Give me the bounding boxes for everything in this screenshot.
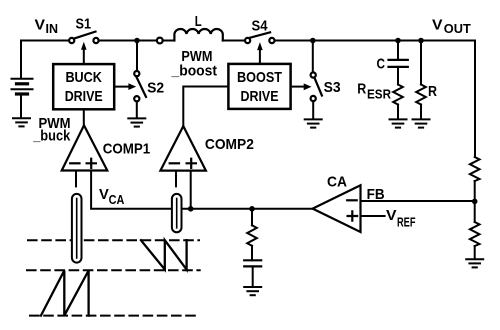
label FB bbox=[367, 186, 385, 203]
svg-text:_buck: _buck bbox=[32, 128, 70, 145]
svg-text:R: R bbox=[428, 83, 437, 100]
waveform falling sawtooth bbox=[141, 240, 187, 269]
wire R branch down bbox=[420, 41, 422, 85]
svg-text:L: L bbox=[195, 13, 202, 30]
svg-text:DRIVE: DRIVE bbox=[241, 88, 279, 105]
svg-text:IN: IN bbox=[46, 22, 59, 36]
svg-text:V: V bbox=[99, 186, 109, 203]
svg-text:_boost: _boost bbox=[171, 62, 217, 79]
wire S3 branch down bbox=[312, 41, 314, 73]
arrowhead at S2 bbox=[128, 83, 136, 90]
op-amp CA bbox=[313, 185, 361, 232]
wire divider to ground bbox=[474, 246, 476, 258]
svg-text:ESR: ESR bbox=[367, 87, 391, 101]
resistor RESR label bbox=[357, 81, 391, 102]
wire rail S1 to L circle bbox=[99, 40, 157, 42]
resistor Rtop of divider bbox=[470, 157, 480, 181]
switch S1 bbox=[69, 32, 99, 44]
capacitor Ccomp bbox=[244, 260, 261, 266]
wire top rail left from VIN corner to S1 bbox=[21, 40, 69, 42]
wire BOOST top to arrow bbox=[259, 50, 261, 64]
node VOUT label bbox=[432, 17, 471, 37]
inductor L label bbox=[195, 13, 202, 30]
capacitor C bbox=[389, 60, 408, 67]
svg-text:S2: S2 bbox=[147, 80, 164, 97]
svg-text:CA: CA bbox=[109, 193, 125, 207]
resistor R bbox=[416, 85, 426, 105]
battery B1 bbox=[12, 79, 33, 118]
svg-text:V: V bbox=[386, 207, 397, 224]
label COMP2 bbox=[205, 136, 254, 153]
resistor R label bbox=[428, 83, 437, 100]
svg-text:REF: REF bbox=[397, 215, 416, 229]
ground under R bbox=[413, 119, 430, 127]
svg-text:S4: S4 bbox=[252, 18, 269, 35]
junction dot R branch bbox=[418, 38, 424, 44]
dashed level line top bbox=[28, 239, 199, 241]
wire S2 to ground bbox=[136, 102, 138, 118]
dashed level line bottom bbox=[30, 315, 197, 317]
svg-text:COMP1: COMP1 bbox=[103, 140, 151, 157]
junction dot C branch bbox=[395, 38, 401, 44]
switch S4 label bbox=[252, 18, 269, 35]
label PWM_buck bbox=[32, 115, 70, 144]
wire circle to L bbox=[163, 40, 175, 42]
svg-text:COMP2: COMP2 bbox=[205, 136, 254, 153]
svg-text:BOOST: BOOST bbox=[237, 69, 282, 86]
junction dot S2 branch bbox=[134, 38, 140, 44]
switch S3 bbox=[311, 72, 322, 101]
junction dot COMP2 plus on VCA bbox=[188, 206, 194, 212]
wire S3 to ground bbox=[312, 101, 314, 118]
switch S1 label bbox=[76, 16, 92, 33]
wire C branch down bbox=[397, 41, 399, 60]
wire BUCK right arrow line to S2 bbox=[114, 86, 129, 88]
wire C to RESR bbox=[397, 67, 399, 85]
svg-text:CA: CA bbox=[327, 174, 347, 191]
node VIN label bbox=[35, 17, 59, 37]
svg-text:C: C bbox=[377, 56, 386, 73]
wire COMP2 output riser to BOOST bbox=[183, 87, 228, 127]
svg-text:DRIVE: DRIVE bbox=[65, 88, 103, 105]
junction dot S3 branch bbox=[310, 38, 316, 44]
wire BOOST right arrow line to S3 bbox=[291, 86, 303, 88]
wire BUCK top to arrow bbox=[83, 50, 85, 65]
wire RESR to ground bbox=[397, 105, 399, 119]
arrow up at S1 bbox=[81, 42, 87, 50]
switch S2 bbox=[134, 71, 146, 101]
label CA bbox=[327, 174, 347, 191]
box U1 BUCK DRIVE bbox=[53, 64, 114, 109]
op-amp COMP2 bbox=[160, 126, 206, 171]
arrowhead at S3 bbox=[304, 83, 312, 90]
svg-text:V: V bbox=[35, 17, 46, 34]
resistor Rbot of divider bbox=[470, 222, 480, 246]
switch S2 label bbox=[147, 80, 164, 97]
ground under divider bbox=[466, 259, 483, 267]
svg-text:V: V bbox=[432, 17, 443, 34]
wire rail S4 to VOUT corner bbox=[275, 40, 475, 42]
resistor RESR bbox=[393, 85, 403, 105]
wire R to ground bbox=[420, 105, 422, 119]
wire COMP2 plus stub bbox=[190, 171, 192, 209]
wire Rcomp to Ccomp bbox=[251, 246, 253, 260]
wire battery top stub bbox=[20, 41, 22, 78]
label VREF bbox=[386, 207, 416, 230]
svg-text:FB: FB bbox=[367, 186, 385, 203]
wire COMP1 minus stub bbox=[75, 171, 77, 187]
wire divider upper bbox=[474, 181, 476, 222]
ground under battery bbox=[13, 118, 30, 126]
ground under RESR bbox=[390, 119, 407, 127]
wire S2 branch down bbox=[136, 41, 138, 71]
label COMP1 bbox=[103, 140, 151, 157]
junction dot FB node bbox=[472, 199, 478, 205]
wire CA plus to VREF bbox=[361, 215, 385, 217]
ground under Ccomp bbox=[244, 287, 261, 295]
svg-text:R: R bbox=[357, 81, 366, 98]
svg-text:BUCK: BUCK bbox=[65, 69, 102, 86]
ramp pill P1 bbox=[72, 194, 82, 263]
wire right edge down bbox=[474, 41, 476, 158]
wire COMP2 minus stub bbox=[175, 171, 177, 187]
svg-text:S3: S3 bbox=[324, 79, 341, 96]
svg-text:S1: S1 bbox=[76, 16, 92, 33]
arrow up at S4 bbox=[257, 42, 263, 50]
label PWM_boost bbox=[171, 48, 217, 79]
junction dot compensation branch bbox=[249, 206, 255, 212]
wire FB to CA minus bbox=[361, 200, 475, 202]
op-amp COMP1 bbox=[62, 125, 108, 170]
wire BUCK bottom to COMP1 apex bbox=[83, 109, 85, 125]
switch S4 bbox=[245, 32, 275, 43]
wire L to S4 bbox=[223, 40, 245, 42]
dashed level line middle bbox=[27, 269, 200, 271]
label VCA bbox=[99, 186, 124, 207]
wire Ccomp to ground bbox=[252, 266, 254, 286]
resistor Rcomp bbox=[247, 225, 257, 246]
ground under S3 bbox=[305, 119, 322, 127]
wire comp branch down bbox=[251, 209, 253, 226]
switch S3 label bbox=[324, 79, 341, 96]
node circle at L input bbox=[157, 38, 163, 44]
inductor L bbox=[174, 29, 222, 40]
svg-text:OUT: OUT bbox=[444, 22, 471, 36]
ramp pill P2 bbox=[172, 194, 182, 232]
waveform rising sawtooth bbox=[41, 271, 89, 316]
capacitor C label bbox=[377, 56, 386, 73]
box U2 BOOST DRIVE bbox=[228, 64, 290, 109]
wire VCA: COMP1 plus down and across to CA apex bbox=[91, 171, 313, 209]
ground under S2 bbox=[128, 118, 145, 126]
